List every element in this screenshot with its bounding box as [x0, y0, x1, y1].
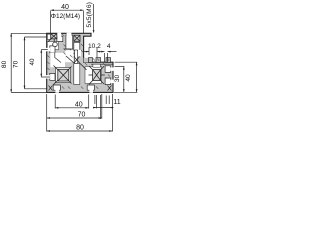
dimension 40 right: arrowheads	[136, 62, 138, 92]
svg-text:40: 40	[61, 4, 69, 11]
corner struts bottom-left box	[53, 66, 72, 86]
dimension 70 bottom: dim line	[47, 94, 102, 132]
dimension 70 left: arrowheads	[24, 37, 26, 89]
dimension 10.2: extension lines	[84, 48, 105, 58]
svg-text:4: 4	[107, 43, 111, 50]
profile body (L-shaped extrusion cross-section)	[47, 33, 113, 92]
dimension 70 bottom: arrowheads	[47, 117, 102, 119]
dimension 80 bottom: dim line	[47, 94, 113, 132]
interior cavity middle-left	[50, 53, 65, 68]
wall hatch ticks	[48, 34, 111, 89]
dimension 40 bottom: dim line	[55, 95, 88, 109]
bottom T-slot cavity 1	[53, 85, 60, 90]
X-brace box bottom-right	[93, 70, 101, 81]
right slot opening 1	[110, 67, 114, 71]
dimension 70 left: dim line	[25, 37, 48, 89]
shelf bracket center	[64, 49, 75, 53]
dimension 40 bottom: arrowheads	[55, 107, 88, 109]
step junction fillet	[84, 58, 89, 63]
corner pocket top-left	[47, 34, 50, 39]
step face bump 1	[89, 58, 93, 63]
corner hole M6 top-left	[53, 42, 58, 47]
step face inner line	[91, 63, 113, 65]
svg-text:80: 80	[76, 125, 84, 132]
central channel upper opening	[67, 33, 72, 37]
corner X mark bottom-left	[49, 86, 53, 91]
central channel bottom pocket	[74, 64, 80, 85]
svg-text:70: 70	[78, 111, 86, 118]
dimension 40 top: arrowheads	[51, 9, 84, 11]
top slot opening 1	[57, 33, 61, 37]
dimension 30 right: arrowheads	[123, 67, 125, 93]
left slot opening 2	[46, 75, 50, 79]
interior cavity bottom-right cell	[85, 67, 102, 84]
dimension 40 top: dim line	[51, 10, 84, 33]
bottom T-slot cavity 2	[87, 85, 94, 90]
interior white center-left	[65, 50, 73, 62]
top T-slot cavity 1	[57, 36, 63, 41]
svg-text:80: 80	[1, 60, 8, 68]
dimension 11: arrowheads	[93, 107, 113, 109]
svg-text:40: 40	[29, 58, 36, 65]
right T-slot cavity 2	[105, 78, 111, 85]
left slot opening 1	[46, 48, 50, 52]
right slot opening 2	[110, 80, 114, 84]
central web junction	[66, 56, 87, 70]
interior pocket above box	[93, 64, 100, 67]
leader 5x5(M6)	[93, 4, 95, 31]
left T-slot cavity 2	[50, 73, 55, 80]
svg-text:30: 30	[114, 75, 121, 83]
bottom slot opening 2	[89, 89, 93, 93]
step face bump 2	[96, 58, 101, 63]
central vertical channel lower: pocket	[74, 42, 80, 50]
X-brace box top-left corner	[51, 34, 57, 39]
right T-slot cavity 1	[105, 66, 111, 73]
web middle-left	[55, 53, 61, 63]
svg-text:70: 70	[13, 60, 20, 68]
corner X mark bottom-right	[108, 86, 112, 91]
dimension 10.2: arrowheads	[86, 51, 100, 53]
dimension 40 right: dim line	[114, 62, 137, 92]
svg-text:11: 11	[113, 99, 120, 106]
dimension 40 left: dim line	[41, 50, 50, 78]
central channel upper (open to top face)	[66, 35, 73, 49]
step face bump 3	[106, 58, 111, 63]
corner struts bottom-right box	[89, 66, 105, 84]
dimension 4: arrowheads	[101, 51, 110, 53]
svg-text:40: 40	[75, 102, 83, 109]
svg-text:10.2: 10.2	[88, 43, 101, 50]
web below corner box	[48, 39, 54, 42]
dimension 11 bottom right: dim line	[93, 95, 114, 119]
X-brace box bottom-left	[58, 69, 69, 81]
dimension 30 right: dim line	[115, 67, 125, 93]
dimension 80 bottom: arrowheads	[47, 130, 113, 132]
svg-text:5x5(M6): 5x5(M6)	[86, 2, 93, 28]
interior cavity bottom-left cell	[56, 68, 71, 83]
interior cavity top-left cell	[47, 42, 58, 50]
central vertical channel lower: narrow slot	[75, 50, 78, 64]
dimension 80 left: arrowheads	[10, 33, 12, 92]
X-brace box top slot 2 position	[74, 35, 80, 41]
left T-slot cavity 1	[50, 46, 55, 53]
dimension 4: extension lines	[105, 52, 117, 62]
svg-text:40: 40	[125, 74, 132, 82]
dimension 40 left: arrowheads	[40, 50, 42, 78]
interior white pocket right of channel	[78, 50, 81, 57]
dimension 80 left: dim line	[11, 33, 47, 92]
bottom slot opening 1	[55, 89, 59, 93]
svg-text:Φ12(M14): Φ12(M14)	[51, 13, 80, 20]
